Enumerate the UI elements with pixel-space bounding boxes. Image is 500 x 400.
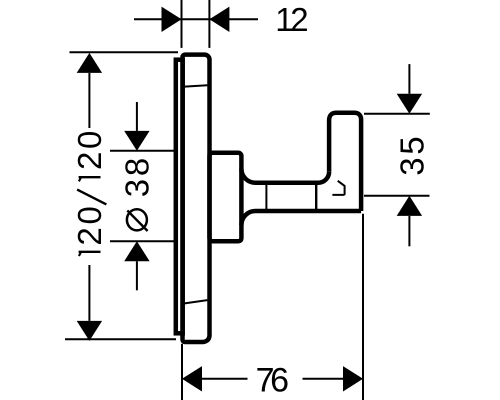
head joint line: [315, 182, 317, 213]
dim 38 line bottom: [136, 261, 138, 290]
dim 38 line top: [136, 102, 138, 131]
dim 38 arrow down: [124, 131, 149, 151]
svg-text:20: 20: [71, 128, 108, 170]
plate seam bottom: [185, 300, 208, 303]
svg-text:35: 35: [394, 134, 431, 176]
dim 35 arrow down: [397, 94, 422, 114]
stem top profile: [241, 169, 329, 183]
dim 76 line left: [202, 378, 248, 380]
dim 12 extension line right: [208, 0, 210, 48]
dim 38 arrow up: [124, 241, 149, 261]
hook inner lip mark: [332, 181, 344, 195]
dim 120/120 label slash: [77, 190, 106, 205]
dim 35 extension top: [364, 113, 430, 115]
stem bottom profile: [241, 211, 361, 225]
stem joint line: [265, 182, 267, 213]
dim 76 extension left: [181, 344, 183, 400]
svg-text:20: 20: [71, 203, 108, 245]
dim 120/120 line bottom: [88, 265, 90, 321]
svg-text:12: 12: [275, 1, 307, 38]
dim 38 label diameter symbol: [127, 209, 147, 230]
dim 76 arrow right: [343, 366, 363, 391]
dim 120/120 extension top: [70, 51, 179, 53]
dim 35 arrow up: [397, 196, 422, 216]
dim 120/120 label upper "1": [79, 176, 101, 178]
dim 120/120 label lower "1": [79, 251, 101, 253]
dim 120/120 arrow up: [77, 53, 102, 73]
dim 120/120 line top: [88, 73, 90, 128]
back plate: [176, 60, 183, 334]
svg-text:38: 38: [119, 155, 156, 197]
dim 12 line: [134, 18, 258, 20]
front plate: [183, 55, 210, 342]
dim 35 line bottom: [408, 216, 410, 246]
svg-text:76: 76: [256, 361, 289, 399]
dim 38 extension top: [110, 150, 174, 152]
dim 38 extension bottom: [110, 240, 174, 242]
dim 12 extension line left: [181, 0, 183, 48]
dim 35 line top: [408, 64, 410, 94]
dim 120/120 extension bottom: [65, 338, 176, 340]
dim 76 extension right: [362, 214, 364, 400]
hook head: [329, 113, 361, 211]
dim 12 arrow left: [162, 7, 182, 32]
plate seam top: [185, 85, 208, 86]
flange: [210, 153, 242, 242]
dim 76 arrow left: [182, 366, 202, 391]
dim 12 arrow right: [209, 7, 229, 32]
dim 35 extension bottom: [364, 195, 430, 197]
dim 120/120 arrow down: [77, 321, 102, 341]
dim 76 line right: [303, 378, 344, 380]
